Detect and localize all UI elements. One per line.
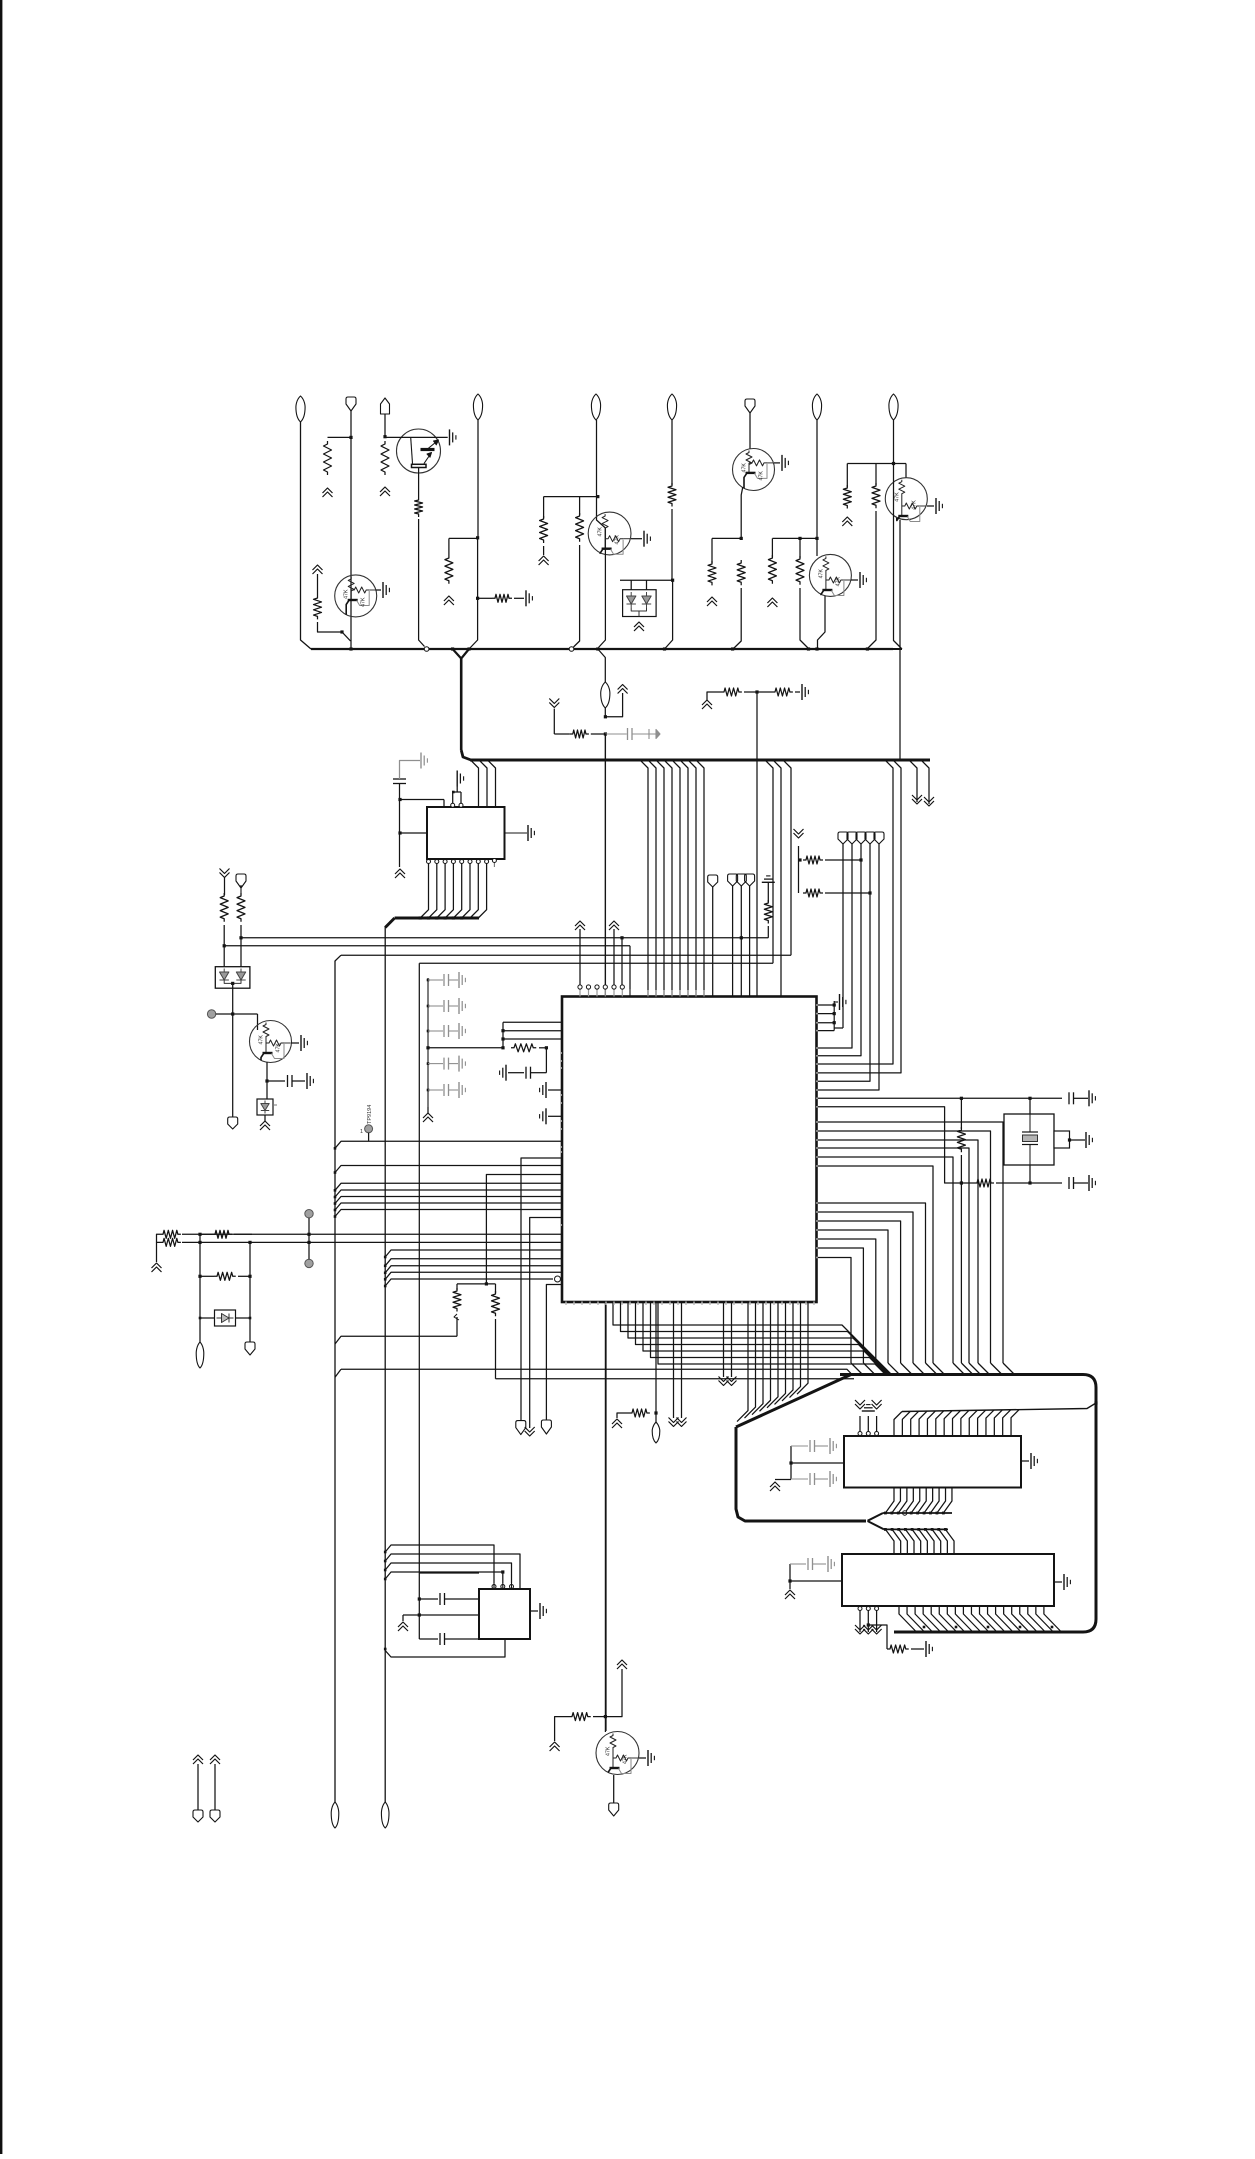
svg-text:47K: 47K <box>894 492 900 502</box>
svg-text:47K: 47K <box>759 471 765 481</box>
svg-text:47K: 47K <box>606 1746 612 1756</box>
svg-text:47K: 47K <box>259 1035 265 1045</box>
svg-text:47K: 47K <box>835 577 841 587</box>
svg-text:TP9194: TP9194 <box>367 1105 373 1124</box>
svg-text:47K: 47K <box>276 1043 282 1053</box>
svg-text:47K: 47K <box>742 463 748 473</box>
svg-text:47K: 47K <box>911 500 917 510</box>
svg-text:47K: 47K <box>615 535 621 545</box>
svg-text:47K: 47K <box>818 569 824 579</box>
svg-text:47K: 47K <box>344 589 350 599</box>
svg-text:47K: 47K <box>623 1754 629 1764</box>
svg-text:47K: 47K <box>598 527 604 537</box>
svg-text:47K: 47K <box>361 597 367 607</box>
svg-text:1: 1 <box>360 1129 363 1135</box>
